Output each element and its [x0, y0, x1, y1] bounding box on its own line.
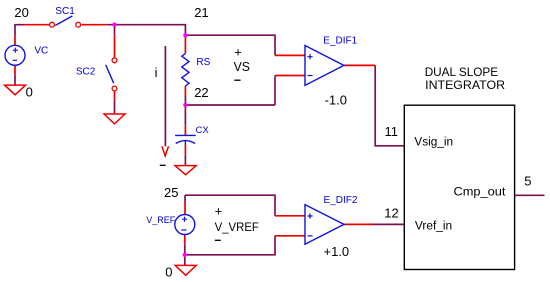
svg-text:+: +: [215, 203, 223, 218]
svg-text:20: 20: [14, 5, 28, 20]
svg-text:i: i: [155, 65, 158, 80]
svg-text:21: 21: [194, 5, 208, 20]
svg-text:-1.0: -1.0: [325, 93, 347, 108]
svg-text:+1.0: +1.0: [324, 244, 350, 259]
svg-text:VC: VC: [34, 45, 48, 56]
svg-text:V_REF: V_REF: [146, 215, 176, 225]
svg-text:INTEGRATOR: INTEGRATOR: [425, 78, 505, 92]
svg-text:VS: VS: [234, 59, 251, 74]
svg-text:SC2: SC2: [76, 67, 96, 78]
svg-text:12: 12: [384, 205, 398, 220]
svg-text:RS: RS: [196, 57, 210, 68]
svg-text:22: 22: [194, 85, 208, 100]
svg-text:Vsig_in: Vsig_in: [414, 137, 453, 149]
svg-text:Vref_in: Vref_in: [415, 221, 452, 233]
svg-text:DUAL SLOPE: DUAL SLOPE: [425, 65, 498, 79]
svg-text:SC1: SC1: [55, 6, 75, 17]
svg-text:25: 25: [164, 185, 178, 200]
svg-text:E_DIF2: E_DIF2: [324, 195, 358, 206]
svg-text:11: 11: [385, 124, 399, 139]
svg-text:V_VREF: V_VREF: [215, 220, 259, 234]
svg-text:+: +: [234, 44, 242, 59]
svg-text:0: 0: [165, 264, 172, 279]
svg-text:E_DIF1: E_DIF1: [323, 36, 357, 47]
svg-text:CX: CX: [196, 125, 210, 136]
svg-text:5: 5: [524, 174, 531, 189]
svg-text:0: 0: [26, 85, 33, 100]
svg-text:Cmp_out: Cmp_out: [454, 185, 507, 199]
